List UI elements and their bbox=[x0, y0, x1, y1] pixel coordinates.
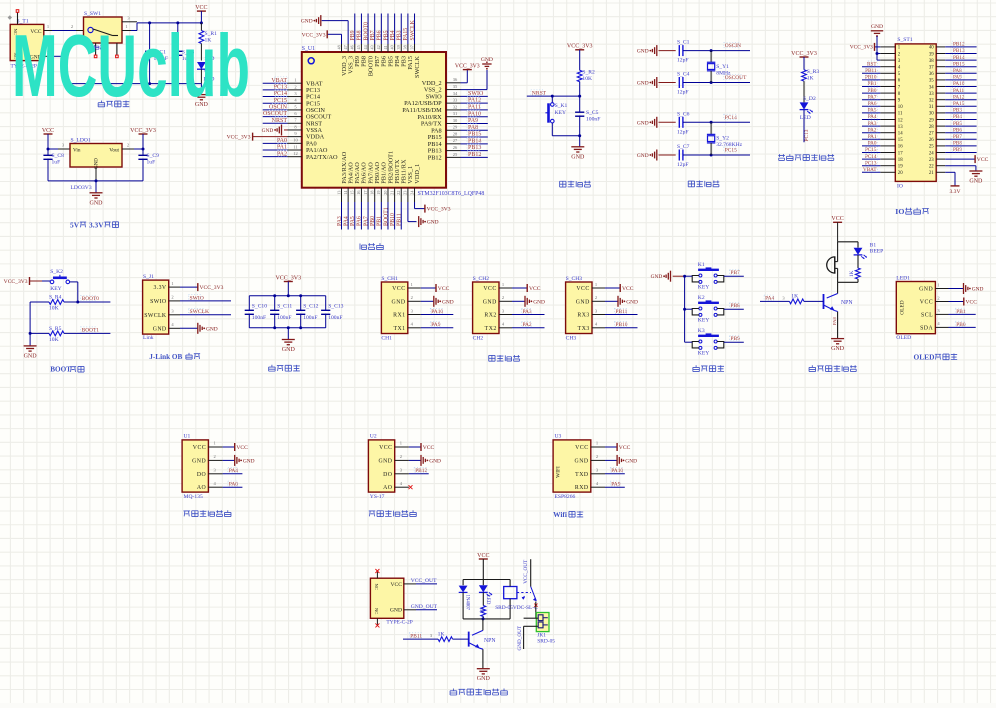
svg-text:26: 26 bbox=[453, 145, 458, 150]
wire header pin 37 net PB15 bbox=[936, 61, 976, 67]
svg-text:VCC_OUT: VCC_OUT bbox=[523, 559, 529, 584]
svg-text:1uF: 1uF bbox=[52, 160, 61, 166]
diode 1N4007 (flyback) bbox=[459, 580, 470, 619]
ground at header pins 2-3 bbox=[871, 24, 896, 60]
wire reset bottom rail and ground bbox=[552, 134, 585, 160]
relay switch contact with VCC_OUT bbox=[522, 559, 538, 618]
svg-text:VCC: VCC bbox=[236, 445, 248, 451]
svg-text:GND: GND bbox=[262, 128, 274, 134]
svg-text:23: 23 bbox=[929, 158, 934, 163]
resistor S_R5 10K bbox=[30, 326, 64, 343]
wire BOOT0 node bbox=[64, 282, 110, 304]
wire LDO GND to ground rail bbox=[48, 167, 143, 193]
wire net PC15 bbox=[711, 147, 750, 155]
wire pin 40 PB4 bbox=[389, 14, 396, 53]
wire pin 12 PA2/TX/AO bbox=[263, 150, 302, 157]
power port VCC (power circuit) bbox=[195, 5, 207, 23]
svg-text:AO: AO bbox=[383, 485, 392, 491]
svg-text:SRD-05VDC-SL-C: SRD-05VDC-SL-C bbox=[495, 605, 538, 611]
ground (LDO) bbox=[90, 193, 104, 207]
svg-text:GND: GND bbox=[429, 458, 441, 464]
push button S_K1 KEY bbox=[545, 96, 567, 136]
svg-text:SWCLK: SWCLK bbox=[144, 313, 167, 319]
svg-text:10K: 10K bbox=[582, 76, 592, 82]
svg-text:13: 13 bbox=[898, 125, 903, 130]
wire pin 24 VDD_1 bbox=[409, 188, 414, 202]
svg-text:PA8: PA8 bbox=[832, 317, 837, 325]
wire U1 pin 2 gnd bbox=[208, 454, 254, 466]
title 声光报警电路 bbox=[809, 365, 857, 371]
wire header pin 35 net PA9 bbox=[936, 74, 976, 80]
svg-text:PA3: PA3 bbox=[523, 309, 532, 315]
svg-text:PB1: PB1 bbox=[377, 216, 383, 226]
svg-text:VCC: VCC bbox=[966, 299, 978, 305]
svg-text:PA1: PA1 bbox=[868, 134, 877, 140]
svg-text:PC14: PC14 bbox=[725, 115, 737, 121]
svg-text:J-Link OB: J-Link OB bbox=[149, 353, 182, 361]
resistor 1K (relay base) with net PB11 bbox=[403, 631, 469, 641]
wire header pin 25 net PB8 bbox=[936, 140, 976, 146]
svg-text:39: 39 bbox=[929, 52, 934, 57]
chip inner pin names bbox=[306, 55, 443, 184]
wire header pin 36 net PA8 bbox=[936, 68, 976, 74]
svg-text:29: 29 bbox=[453, 125, 458, 130]
svg-text:31: 31 bbox=[929, 105, 934, 110]
svg-text:GND: GND bbox=[192, 458, 206, 464]
wire pin 7 NRST bbox=[263, 117, 302, 124]
svg-text:100nF: 100nF bbox=[252, 315, 266, 321]
svg-text:2: 2 bbox=[596, 454, 598, 459]
svg-text:S_CH1: S_CH1 bbox=[381, 276, 398, 282]
svg-text:30: 30 bbox=[929, 112, 934, 117]
svg-text:20: 20 bbox=[898, 171, 903, 176]
svg-text:34: 34 bbox=[453, 91, 458, 96]
svg-text:PA2: PA2 bbox=[277, 151, 287, 157]
svg-text:VBAT: VBAT bbox=[863, 167, 877, 173]
svg-text:PA3: PA3 bbox=[337, 216, 343, 226]
wire header pin 17 net PC15 bbox=[862, 147, 895, 153]
svg-text:S_R3: S_R3 bbox=[807, 69, 820, 75]
wire net PA3 (S_CH2) bbox=[499, 308, 545, 315]
svg-text:PB10: PB10 bbox=[390, 213, 396, 226]
svg-text:CH1: CH1 bbox=[381, 335, 392, 341]
wire SWCLK net (J-Link) bbox=[169, 309, 231, 316]
svg-text:SWCLK: SWCLK bbox=[410, 19, 416, 40]
wire U3 pin 4 net PA9 bbox=[591, 481, 625, 488]
wire header pin 11 net PA5 bbox=[862, 107, 895, 113]
ground (S_C6) bbox=[637, 117, 676, 128]
svg-text:PB8: PB8 bbox=[357, 30, 363, 40]
power port VCC (S_CH3) bbox=[592, 282, 634, 292]
wire pin 41 PB5 bbox=[383, 14, 390, 53]
svg-text:12pF: 12pF bbox=[677, 90, 689, 96]
power port VCC_3V3 (filter) bbox=[275, 275, 301, 297]
svg-text:S_C5: S_C5 bbox=[586, 110, 599, 116]
svg-text:37: 37 bbox=[409, 45, 414, 49]
wire U3 pin 2 gnd bbox=[591, 454, 637, 466]
svg-text:12pF: 12pF bbox=[677, 162, 689, 168]
svg-text:VCC_3V3: VCC_3V3 bbox=[275, 275, 301, 281]
wire pin 37 SWCLK bbox=[409, 14, 416, 53]
svg-text:10K: 10K bbox=[49, 337, 59, 343]
svg-text:S_C7: S_C7 bbox=[677, 144, 690, 150]
svg-text:S_Y2: S_Y2 bbox=[716, 136, 729, 142]
svg-text:S_CH2: S_CH2 bbox=[473, 276, 490, 282]
svg-text:DO: DO bbox=[197, 472, 206, 478]
svg-text:37: 37 bbox=[929, 66, 934, 71]
svg-text:PB15: PB15 bbox=[468, 132, 481, 138]
svg-text:VCC: VCC bbox=[920, 300, 933, 306]
svg-text:GND: GND bbox=[637, 153, 649, 159]
svg-text:K3: K3 bbox=[698, 328, 705, 334]
resistor S_R2 10K bbox=[577, 70, 595, 97]
ground (S_CH2) bbox=[499, 295, 545, 307]
connector S_CH2 serial bbox=[473, 276, 499, 341]
LED (alarm) with resistor bbox=[849, 242, 867, 282]
svg-text:1: 1 bbox=[937, 282, 939, 287]
svg-text:S_C13: S_C13 bbox=[328, 304, 343, 310]
wire pin 22 PB11/RX bbox=[396, 188, 403, 230]
capacitor S_C8 1uF bbox=[43, 149, 64, 181]
svg-text:S_C10: S_C10 bbox=[252, 304, 267, 310]
capacitor S_C1 100nF bbox=[145, 23, 168, 84]
module U2 bbox=[368, 433, 394, 500]
wire net PA9 (S_CH1) bbox=[408, 322, 454, 329]
svg-text:GND: GND bbox=[972, 287, 984, 293]
power port VCC at header pin 23 bbox=[936, 155, 988, 163]
svg-text:GND_OUT: GND_OUT bbox=[517, 625, 523, 650]
svg-text:U2: U2 bbox=[370, 433, 377, 439]
svg-text:GND: GND bbox=[153, 326, 167, 332]
wire U2 pin 1 vcc bbox=[395, 441, 435, 451]
svg-text:BOOT0: BOOT0 bbox=[82, 296, 100, 302]
svg-text:PB12: PB12 bbox=[415, 468, 427, 474]
svg-text:19: 19 bbox=[898, 165, 903, 170]
svg-text:S_U1: S_U1 bbox=[302, 46, 315, 52]
svg-text:S_D2: S_D2 bbox=[803, 96, 816, 102]
wire GND_OUT net bbox=[404, 604, 438, 610]
buzzer B1 BEEP bbox=[827, 242, 884, 282]
svg-text:S_C4: S_C4 bbox=[677, 72, 690, 78]
svg-text:19: 19 bbox=[376, 191, 381, 195]
svg-text:PB7: PB7 bbox=[953, 134, 962, 140]
svg-text:BEEP: BEEP bbox=[870, 249, 884, 255]
svg-text:BOOT1: BOOT1 bbox=[82, 327, 100, 333]
svg-text:S_LDO1: S_LDO1 bbox=[71, 138, 91, 144]
capacitor S_C11 100nF bbox=[270, 296, 292, 328]
svg-text:28: 28 bbox=[929, 125, 934, 130]
wire header pin 33 net PA11 bbox=[936, 87, 976, 93]
svg-text:S_R4: S_R4 bbox=[49, 295, 62, 301]
svg-text:PB8: PB8 bbox=[731, 303, 741, 309]
wire U3 pin 1 vcc bbox=[591, 441, 631, 451]
svg-text:PB11: PB11 bbox=[865, 68, 877, 74]
svg-text:VCC: VCC bbox=[195, 5, 207, 11]
svg-text:GND: GND bbox=[575, 458, 589, 464]
svg-text:35: 35 bbox=[929, 79, 934, 84]
svg-text:GND: GND bbox=[90, 200, 104, 206]
svg-text:GND: GND bbox=[637, 120, 649, 126]
connector S_T1 (TYPE-C-2P power input) bbox=[10, 19, 44, 70]
wire U1 pin 4 net PA0 bbox=[208, 481, 242, 488]
svg-text:S_C9: S_C9 bbox=[147, 153, 160, 159]
wire net PC13 (run LED) bbox=[804, 110, 810, 143]
svg-text:41: 41 bbox=[383, 45, 388, 49]
svg-text:PB5: PB5 bbox=[383, 30, 389, 40]
svg-text:TYPE-C-2P: TYPE-C-2P bbox=[386, 620, 412, 626]
connector S_CH1 serial bbox=[381, 276, 407, 341]
svg-text:KEY: KEY bbox=[698, 285, 710, 291]
svg-text:GND: GND bbox=[243, 458, 255, 464]
svg-text:PB1: PB1 bbox=[956, 309, 966, 315]
wire pin 1 VBAT bbox=[263, 77, 302, 84]
svg-text:VCC: VCC bbox=[576, 286, 589, 292]
svg-text:PB4: PB4 bbox=[390, 30, 396, 40]
title 复位电路 bbox=[560, 181, 591, 187]
power port VCC (S_CH1) bbox=[408, 282, 450, 292]
ground (S_C1) bbox=[637, 45, 676, 56]
wire BOOT1 net bbox=[64, 327, 110, 334]
svg-text:VDD_1: VDD_1 bbox=[414, 164, 421, 184]
wire header pin 15 net PA1 bbox=[862, 134, 895, 140]
wire pin 46 PB9 bbox=[350, 14, 357, 53]
svg-text:GND: GND bbox=[831, 346, 845, 352]
svg-text:PA5: PA5 bbox=[868, 108, 877, 114]
power port VCC_3V3 at chip VDD_1 pin 24 bbox=[415, 202, 451, 213]
relay coil SRD-05VDC-SL-C bbox=[495, 580, 538, 619]
title 串口电路 bbox=[489, 355, 520, 361]
svg-text:12pF: 12pF bbox=[677, 58, 689, 64]
svg-text:LED1: LED1 bbox=[896, 275, 910, 281]
svg-text:17: 17 bbox=[363, 191, 368, 195]
svg-text:33: 33 bbox=[453, 98, 458, 103]
LED S_D bbox=[197, 56, 214, 84]
svg-text:PA4: PA4 bbox=[765, 296, 774, 302]
svg-text:PC15: PC15 bbox=[865, 147, 877, 153]
svg-text:NPN: NPN bbox=[841, 300, 853, 306]
wire keys common rail bbox=[683, 275, 686, 343]
svg-text:VCC_3V3: VCC_3V3 bbox=[791, 51, 817, 57]
svg-text:PC15: PC15 bbox=[274, 98, 287, 104]
ground at chip VSS_3 pin 47 bbox=[301, 15, 348, 44]
svg-text:3.3V: 3.3V bbox=[89, 220, 104, 229]
svg-text:S_C1: S_C1 bbox=[677, 40, 690, 46]
svg-text:GND_OUT: GND_OUT bbox=[411, 604, 438, 610]
svg-text:VCC: VCC bbox=[438, 286, 450, 292]
svg-text:34: 34 bbox=[929, 85, 934, 90]
wire header pin 20 net VBAT bbox=[862, 167, 895, 173]
svg-text:21: 21 bbox=[389, 191, 394, 195]
svg-text:2: 2 bbox=[502, 295, 504, 300]
power port VCC_3V3 (reset) bbox=[567, 44, 593, 71]
wire pin 28 PB15 bbox=[446, 131, 488, 138]
push button K3 KEY bbox=[692, 328, 724, 356]
svg-text:PC14: PC14 bbox=[865, 154, 877, 160]
wire pin 19 PB1/AO bbox=[376, 188, 383, 230]
svg-text:39: 39 bbox=[396, 45, 401, 49]
wire header pin 39 net PB13 bbox=[936, 48, 976, 54]
ground (filter) bbox=[282, 340, 296, 354]
ground (S_C7) bbox=[637, 150, 676, 161]
svg-text:KEY: KEY bbox=[698, 318, 710, 324]
svg-text:2: 2 bbox=[595, 295, 597, 300]
svg-text:31: 31 bbox=[453, 111, 458, 116]
wire net PB10 (S_CH3) bbox=[592, 322, 638, 329]
svg-text:TXD: TXD bbox=[575, 472, 588, 478]
svg-text:PA10: PA10 bbox=[953, 81, 965, 87]
svg-text:2: 2 bbox=[411, 295, 413, 300]
wire pin 4 PC15 bbox=[263, 97, 302, 104]
svg-text:PB15: PB15 bbox=[953, 61, 965, 67]
svg-text:10: 10 bbox=[293, 138, 298, 143]
svg-text:2: 2 bbox=[171, 295, 173, 300]
svg-text:8MHz: 8MHz bbox=[716, 71, 731, 77]
svg-text:100nF: 100nF bbox=[277, 315, 291, 321]
wire NRST net bbox=[527, 90, 581, 98]
connector JK1 SRD-05 terminal block bbox=[536, 613, 555, 645]
capacitor S_C5 100nF bbox=[575, 96, 600, 136]
svg-text:28: 28 bbox=[453, 131, 458, 136]
module U1 bbox=[182, 433, 208, 500]
svg-text:PA12: PA12 bbox=[953, 94, 965, 100]
power port VCC (relay) bbox=[477, 553, 489, 580]
svg-text:PB10: PB10 bbox=[616, 322, 628, 328]
wire U2 pin 4 nc bbox=[395, 481, 413, 489]
crystal S_Y1 8MHz bbox=[707, 51, 731, 83]
wire header pin 32 net PA12 bbox=[936, 94, 976, 100]
svg-text:PB6: PB6 bbox=[377, 30, 383, 40]
svg-text:U3: U3 bbox=[555, 433, 562, 439]
wire header pin 10 net PA6 bbox=[862, 101, 895, 107]
svg-text:21: 21 bbox=[929, 171, 934, 176]
wire U2 pin 2 gnd bbox=[395, 454, 441, 466]
svg-text:40: 40 bbox=[929, 46, 934, 51]
svg-text:BOOT: BOOT bbox=[50, 366, 71, 374]
wire pin 32 PA11/USB/DM bbox=[446, 104, 488, 111]
power port VCC_3V3 at chip VDD_2 pin 36 bbox=[455, 63, 480, 82]
svg-text:S_C6: S_C6 bbox=[677, 111, 690, 117]
svg-text:SWCLK: SWCLK bbox=[414, 56, 421, 78]
ground (power circuit) bbox=[195, 84, 209, 109]
svg-text:27: 27 bbox=[929, 132, 934, 137]
svg-text:NPN: NPN bbox=[484, 638, 496, 644]
wire relay top rail bbox=[463, 579, 510, 581]
svg-text:IO: IO bbox=[895, 207, 904, 216]
svg-text:GND: GND bbox=[533, 299, 545, 305]
wire U2 pin 3 net PB12 bbox=[395, 467, 429, 474]
svg-text:K1: K1 bbox=[698, 262, 705, 268]
svg-text:12: 12 bbox=[898, 118, 903, 123]
resistor S_R3 1K bbox=[802, 69, 820, 102]
push button K2 KEY bbox=[692, 295, 724, 323]
title BOOT电路 bbox=[50, 366, 84, 374]
svg-text:SCL: SCL bbox=[921, 312, 933, 318]
svg-text:PB0: PB0 bbox=[956, 322, 966, 328]
svg-text:PA10: PA10 bbox=[431, 309, 443, 315]
svg-text:VCC_OUT: VCC_OUT bbox=[411, 578, 437, 584]
wire pin 17 PA7/AO bbox=[363, 188, 370, 230]
svg-text:11: 11 bbox=[898, 112, 903, 117]
svg-text:VCC_3V3: VCC_3V3 bbox=[455, 63, 480, 69]
svg-text:SWIO: SWIO bbox=[468, 91, 484, 97]
regulator S_LDO1 LDO3V3 bbox=[70, 138, 122, 192]
svg-text:1: 1 bbox=[596, 441, 598, 446]
svg-text:VCC: VCC bbox=[619, 445, 631, 451]
wire pin 33 PA12/USB/DP bbox=[446, 97, 488, 104]
connector S_CH3 serial bbox=[566, 276, 592, 341]
wire relay contact to JK1 pin 1 bbox=[524, 617, 538, 619]
svg-text:10K: 10K bbox=[49, 306, 59, 312]
title J-Link OB接口 bbox=[149, 353, 200, 361]
svg-text:22: 22 bbox=[396, 191, 401, 195]
svg-text:VCC: VCC bbox=[483, 286, 496, 292]
svg-text:16: 16 bbox=[356, 191, 361, 195]
capacitor S_C4 12pF bbox=[677, 72, 713, 96]
svg-text:NRST: NRST bbox=[272, 118, 288, 124]
svg-text:BOOT0: BOOT0 bbox=[363, 22, 369, 41]
title 按键电路 bbox=[693, 365, 724, 371]
svg-text:PC15: PC15 bbox=[725, 148, 737, 154]
svg-text:PA2: PA2 bbox=[868, 127, 877, 133]
ground (S_CH1) bbox=[408, 295, 454, 307]
svg-text:TX1: TX1 bbox=[393, 326, 405, 332]
svg-text:VCC_3V3: VCC_3V3 bbox=[302, 32, 326, 38]
svg-text:GND: GND bbox=[392, 299, 406, 305]
power port 3.3V at header pin 21 bbox=[936, 172, 960, 195]
svg-text:32.768KHz: 32.768KHz bbox=[716, 142, 742, 148]
ground at chip VSS_2 pin 35 bbox=[461, 57, 493, 90]
power port VCC_3V3 (LDO output) bbox=[130, 128, 156, 149]
svg-text:2: 2 bbox=[127, 143, 129, 148]
wire pin 11 PA1/AO bbox=[263, 144, 302, 151]
svg-text:VCC: VCC bbox=[622, 286, 634, 292]
svg-text:1: 1 bbox=[411, 282, 413, 287]
svg-text:MCUclub: MCUclub bbox=[12, 16, 250, 115]
svg-text:PC14: PC14 bbox=[274, 91, 287, 97]
wire pin 29 PA8 bbox=[446, 124, 488, 131]
ground (keys) bbox=[651, 271, 685, 282]
svg-text:PA0: PA0 bbox=[277, 138, 287, 144]
wire pin 20 PB2/BOOT1 bbox=[383, 188, 390, 230]
svg-text:VCC_3V3: VCC_3V3 bbox=[130, 128, 156, 134]
wire header pin 9 net PA7 bbox=[862, 94, 895, 100]
svg-text:15: 15 bbox=[350, 191, 355, 195]
switch body pins below S_SW1 bbox=[94, 43, 118, 58]
wire pin 48 VDD_3 bbox=[336, 44, 341, 52]
wire header pin 29 net PB4 bbox=[936, 114, 976, 120]
svg-text:1K: 1K bbox=[438, 631, 445, 637]
svg-text:PB7: PB7 bbox=[370, 30, 376, 40]
svg-text:PB12: PB12 bbox=[428, 154, 442, 161]
svg-text:PB0: PB0 bbox=[370, 216, 376, 226]
svg-text:VCC_3V3: VCC_3V3 bbox=[227, 134, 251, 140]
svg-text:YS-17: YS-17 bbox=[370, 494, 385, 500]
svg-text:48: 48 bbox=[336, 45, 341, 49]
svg-text:RX3: RX3 bbox=[577, 313, 589, 319]
svg-text:PB9: PB9 bbox=[953, 147, 962, 153]
power port VCC (LDO input) bbox=[42, 128, 54, 151]
wire net PA10 (S_CH1) bbox=[408, 308, 454, 315]
svg-text:1: 1 bbox=[400, 441, 402, 446]
svg-text:43: 43 bbox=[370, 45, 375, 49]
svg-text:S_CH3: S_CH3 bbox=[566, 276, 583, 282]
resistor S_R1 1K bbox=[199, 23, 217, 61]
wire U1 pin 1 vcc bbox=[208, 441, 248, 451]
svg-text:1: 1 bbox=[595, 282, 597, 287]
capacitor S_C7 12pF bbox=[677, 144, 713, 168]
svg-text:1K: 1K bbox=[478, 607, 483, 613]
connector S_J1 J-Link bbox=[143, 274, 169, 341]
